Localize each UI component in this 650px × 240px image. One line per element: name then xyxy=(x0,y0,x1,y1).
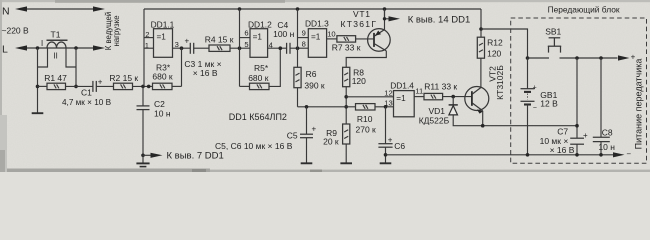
svg-text:5: 5 xyxy=(244,40,248,49)
svg-text:−: − xyxy=(533,105,537,112)
svg-text:=1: =1 xyxy=(311,33,321,42)
rotated label Pitanie peredatchika xyxy=(634,59,644,150)
resistor R8 xyxy=(343,67,350,86)
label VT2 rotated xyxy=(488,66,498,82)
node C7 bottom xyxy=(575,153,579,157)
wire to SB1 xyxy=(528,57,550,59)
wire VT1 collector to R8 xyxy=(346,51,386,67)
svg-text:10 н: 10 н xyxy=(154,109,171,119)
capacitor C2 xyxy=(142,86,144,106)
node on L right xyxy=(74,46,78,50)
pushbutton SB1 xyxy=(548,45,561,47)
svg-text:=1: =1 xyxy=(157,33,167,42)
transformer T1 primary winding I xyxy=(47,42,66,48)
wire R7 to VT1 base xyxy=(356,38,374,40)
svg-text:10 н: 10 н xyxy=(598,142,615,152)
svg-text:R2 15 к: R2 15 к xyxy=(109,73,138,83)
wire branch to SB1 column xyxy=(481,29,528,58)
wire C3 to R4 xyxy=(194,47,209,49)
resistor R7 xyxy=(337,36,356,42)
resistor R12 xyxy=(477,37,484,58)
svg-text:T1: T1 xyxy=(51,30,61,40)
transformer T1 secondary leads xyxy=(38,48,48,67)
op-amp gate DD1.2 xyxy=(250,29,268,58)
node C6 bottom xyxy=(384,153,388,157)
arrow minus output xyxy=(613,152,625,157)
node supply DD1.3 xyxy=(296,7,300,11)
wire VT2 collector to R12 xyxy=(480,58,482,87)
svg-text:К выв. 7 DD1: К выв. 7 DD1 xyxy=(167,151,224,162)
svg-text:100 н: 100 н xyxy=(273,29,295,39)
node VT1 emitter rail xyxy=(383,7,387,11)
svg-text:9: 9 xyxy=(302,29,306,38)
svg-text:=1: =1 xyxy=(396,94,406,103)
svg-text:C5, С6 10 мк × 16 В: C5, С6 10 мк × 16 В xyxy=(215,141,293,151)
node pin3 xyxy=(180,46,184,50)
node pin12 xyxy=(344,95,348,99)
node R10 left xyxy=(344,105,348,109)
svg-text:× 16 В: × 16 В xyxy=(550,145,575,155)
svg-text:+: + xyxy=(98,78,103,87)
svg-text:R6: R6 xyxy=(306,69,317,79)
svg-text:8: 8 xyxy=(302,40,306,49)
svg-text:120: 120 xyxy=(487,49,501,59)
arrow plus output xyxy=(618,55,630,60)
svg-text:13: 13 xyxy=(384,98,392,107)
op-amp gate DD1.3 xyxy=(308,29,326,58)
node R12 branch xyxy=(479,27,483,31)
wire SB1 to arrow xyxy=(560,57,618,59)
diode VD1 xyxy=(452,97,454,105)
node C8 top xyxy=(599,56,603,60)
ground left xyxy=(32,112,44,114)
ground bottom xyxy=(142,155,144,163)
svg-text:−: − xyxy=(626,150,631,159)
svg-text:L: L xyxy=(2,44,8,56)
node R1 right xyxy=(74,85,78,89)
capacitor C8 xyxy=(593,136,610,138)
svg-text:КД522Б: КД522Б xyxy=(419,116,450,126)
svg-text:R12: R12 xyxy=(487,38,503,48)
wire N line xyxy=(21,8,99,10)
resistor R5 xyxy=(240,85,250,87)
op-amp gate DD1.4 xyxy=(394,91,415,117)
capacitor C5 xyxy=(306,107,308,134)
wire C4 to DD1.3 xyxy=(290,47,308,49)
svg-text:R11 33 к: R11 33 к xyxy=(424,82,457,92)
node VD1 tap xyxy=(451,95,455,99)
wire rail corner to R12 xyxy=(480,9,482,37)
arrow to pin 7 DD1 xyxy=(143,154,152,156)
svg-text:+: + xyxy=(312,125,317,134)
wire R2 to node A xyxy=(133,85,153,87)
svg-text:12: 12 xyxy=(384,89,392,98)
svg-text:DD1.2: DD1.2 xyxy=(248,20,272,30)
wire DD1.2 input rail xyxy=(239,9,241,86)
paper background xyxy=(0,0,650,172)
svg-text:10: 10 xyxy=(327,29,335,38)
svg-text:6: 6 xyxy=(244,28,248,37)
node C6 tap xyxy=(384,105,388,109)
svg-text:+: + xyxy=(533,84,537,91)
svg-text:680 к: 680 к xyxy=(248,73,269,83)
svg-text:II: II xyxy=(54,51,58,60)
transistor VT1 xyxy=(368,29,391,52)
svg-text:VD1: VD1 xyxy=(429,106,446,116)
wire pin11 out xyxy=(414,96,424,98)
node C7 top xyxy=(575,56,579,60)
wire R3 feedback vertical xyxy=(181,48,183,86)
node R6 tap xyxy=(296,46,300,50)
svg-text:R10: R10 xyxy=(357,114,373,124)
node supply DD1.2 xyxy=(238,7,242,11)
svg-text:11: 11 xyxy=(415,86,423,95)
svg-text:Передающий блок: Передающий блок xyxy=(548,4,620,14)
svg-text:Питание передатчика: Питание передатчика xyxy=(634,59,644,150)
svg-text:КТ3102Б: КТ3102Б xyxy=(495,65,505,100)
svg-text:390 к: 390 к xyxy=(304,80,325,90)
node GB1 bottom xyxy=(526,153,530,157)
svg-text:нагрузке: нагрузке xyxy=(112,15,121,46)
svg-text:К выв. 14 DD1: К выв. 14 DD1 xyxy=(408,14,471,25)
wire DD1.1 input rail xyxy=(143,9,145,86)
svg-text:DD1.3: DD1.3 xyxy=(305,19,329,29)
wire right vertical from L to R1 row xyxy=(75,48,77,86)
svg-text:680 к: 680 к xyxy=(152,72,173,82)
svg-text:1: 1 xyxy=(145,41,149,50)
svg-text:2: 2 xyxy=(145,30,149,39)
resistor R9 xyxy=(343,124,350,144)
arrow to pin 14 DD1 xyxy=(385,9,392,19)
svg-text:DD1.1: DD1.1 xyxy=(151,19,175,29)
ground bar C5 xyxy=(301,162,313,164)
wire DD1.3 input rail xyxy=(297,9,299,48)
dashed box transmit block xyxy=(511,18,647,163)
resistor R1 xyxy=(38,85,48,87)
ground bar R9 xyxy=(340,162,352,164)
wire to pin 12 xyxy=(346,96,393,98)
svg-text:SB1: SB1 xyxy=(545,27,561,37)
wire L line xyxy=(21,47,99,49)
wire pin4 out xyxy=(268,47,287,49)
battery GB1 xyxy=(527,58,529,89)
node C5 tap xyxy=(305,105,309,109)
svg-text:~220 В: ~220 В xyxy=(2,26,30,36)
svg-text:DD1 К564ЛП2: DD1 К564ЛП2 xyxy=(229,112,287,122)
wire left vertical from L to ground xyxy=(37,48,39,113)
resistor R2 xyxy=(114,83,133,89)
node GB1 top xyxy=(526,56,530,60)
svg-text:R5*: R5* xyxy=(254,63,269,73)
supply rail to pin 14 xyxy=(144,8,481,10)
svg-text:=1: =1 xyxy=(253,33,263,42)
wire C8 vertical xyxy=(600,58,602,137)
svg-text:VT1: VT1 xyxy=(353,9,371,19)
node on L left xyxy=(36,46,40,50)
svg-text:120: 120 xyxy=(352,76,366,86)
svg-text:I: I xyxy=(41,39,43,48)
resistor R6 xyxy=(297,48,299,67)
wire VT1 emitter to rail xyxy=(384,9,386,30)
wire pin3 out xyxy=(173,47,191,49)
svg-text:12 В: 12 В xyxy=(540,99,558,109)
ground bar C6 xyxy=(380,162,392,164)
svg-text:N: N xyxy=(2,6,10,18)
svg-text:20 к: 20 к xyxy=(323,137,339,147)
node C8 bottom xyxy=(599,153,603,157)
svg-text:4,7 мк × 10 В: 4,7 мк × 10 В xyxy=(62,98,112,107)
wire common bottom xyxy=(386,154,614,156)
wire VT2 emitter down xyxy=(482,111,484,126)
op-amp gate DD1.1 xyxy=(154,29,173,58)
resistor R3 xyxy=(153,83,173,89)
rotated label К ведущей нагрузке xyxy=(104,12,113,50)
svg-text:C6: C6 xyxy=(394,141,405,151)
node R5 tap xyxy=(279,46,283,50)
svg-text:R1 47: R1 47 xyxy=(44,73,67,83)
node emitter on line xyxy=(481,124,485,128)
wire DD1.3 pin10 to R7 xyxy=(327,38,337,40)
svg-text:R7 33 к: R7 33 к xyxy=(332,43,361,53)
capacitor C6 xyxy=(385,107,387,144)
svg-text:+: + xyxy=(185,36,190,45)
node R4 right xyxy=(238,46,242,50)
svg-text:КТ361Г: КТ361Г xyxy=(341,19,378,29)
svg-text:C1: C1 xyxy=(81,88,92,98)
wire R8 bottom rail xyxy=(345,87,347,124)
wire R5 feedback xyxy=(269,48,280,86)
resistor R10 xyxy=(356,104,376,110)
transformer T1 core xyxy=(47,39,68,41)
node A C2 tap xyxy=(141,85,145,89)
wire C7 vertical xyxy=(576,58,578,138)
wire R10 to pin 13 xyxy=(375,106,394,108)
resistor R11 xyxy=(424,93,443,99)
svg-text:DD1.4: DD1.4 xyxy=(390,80,414,90)
svg-text:× 16 В: × 16 В xyxy=(193,68,218,78)
capacitor C1 xyxy=(92,81,94,92)
wire R11 to VT2 base xyxy=(443,96,472,98)
capacitor C4 xyxy=(286,43,288,54)
svg-text:C5: C5 xyxy=(287,131,298,141)
resistor R4 xyxy=(209,45,230,51)
wire C1 to R2 xyxy=(96,85,113,87)
node R1 left xyxy=(36,85,40,89)
transistor VT2 xyxy=(465,87,489,111)
node bottom rail left xyxy=(141,154,145,158)
svg-text:C8: C8 xyxy=(602,127,613,137)
wire R4 to DD1.2 xyxy=(230,47,250,49)
svg-text:270 к: 270 к xyxy=(356,125,377,135)
svg-text:R4 15 к: R4 15 к xyxy=(205,35,234,45)
node C7 emitter tap xyxy=(575,124,579,128)
wire rail to R10 xyxy=(298,106,356,108)
node A R3 tap xyxy=(147,85,151,89)
